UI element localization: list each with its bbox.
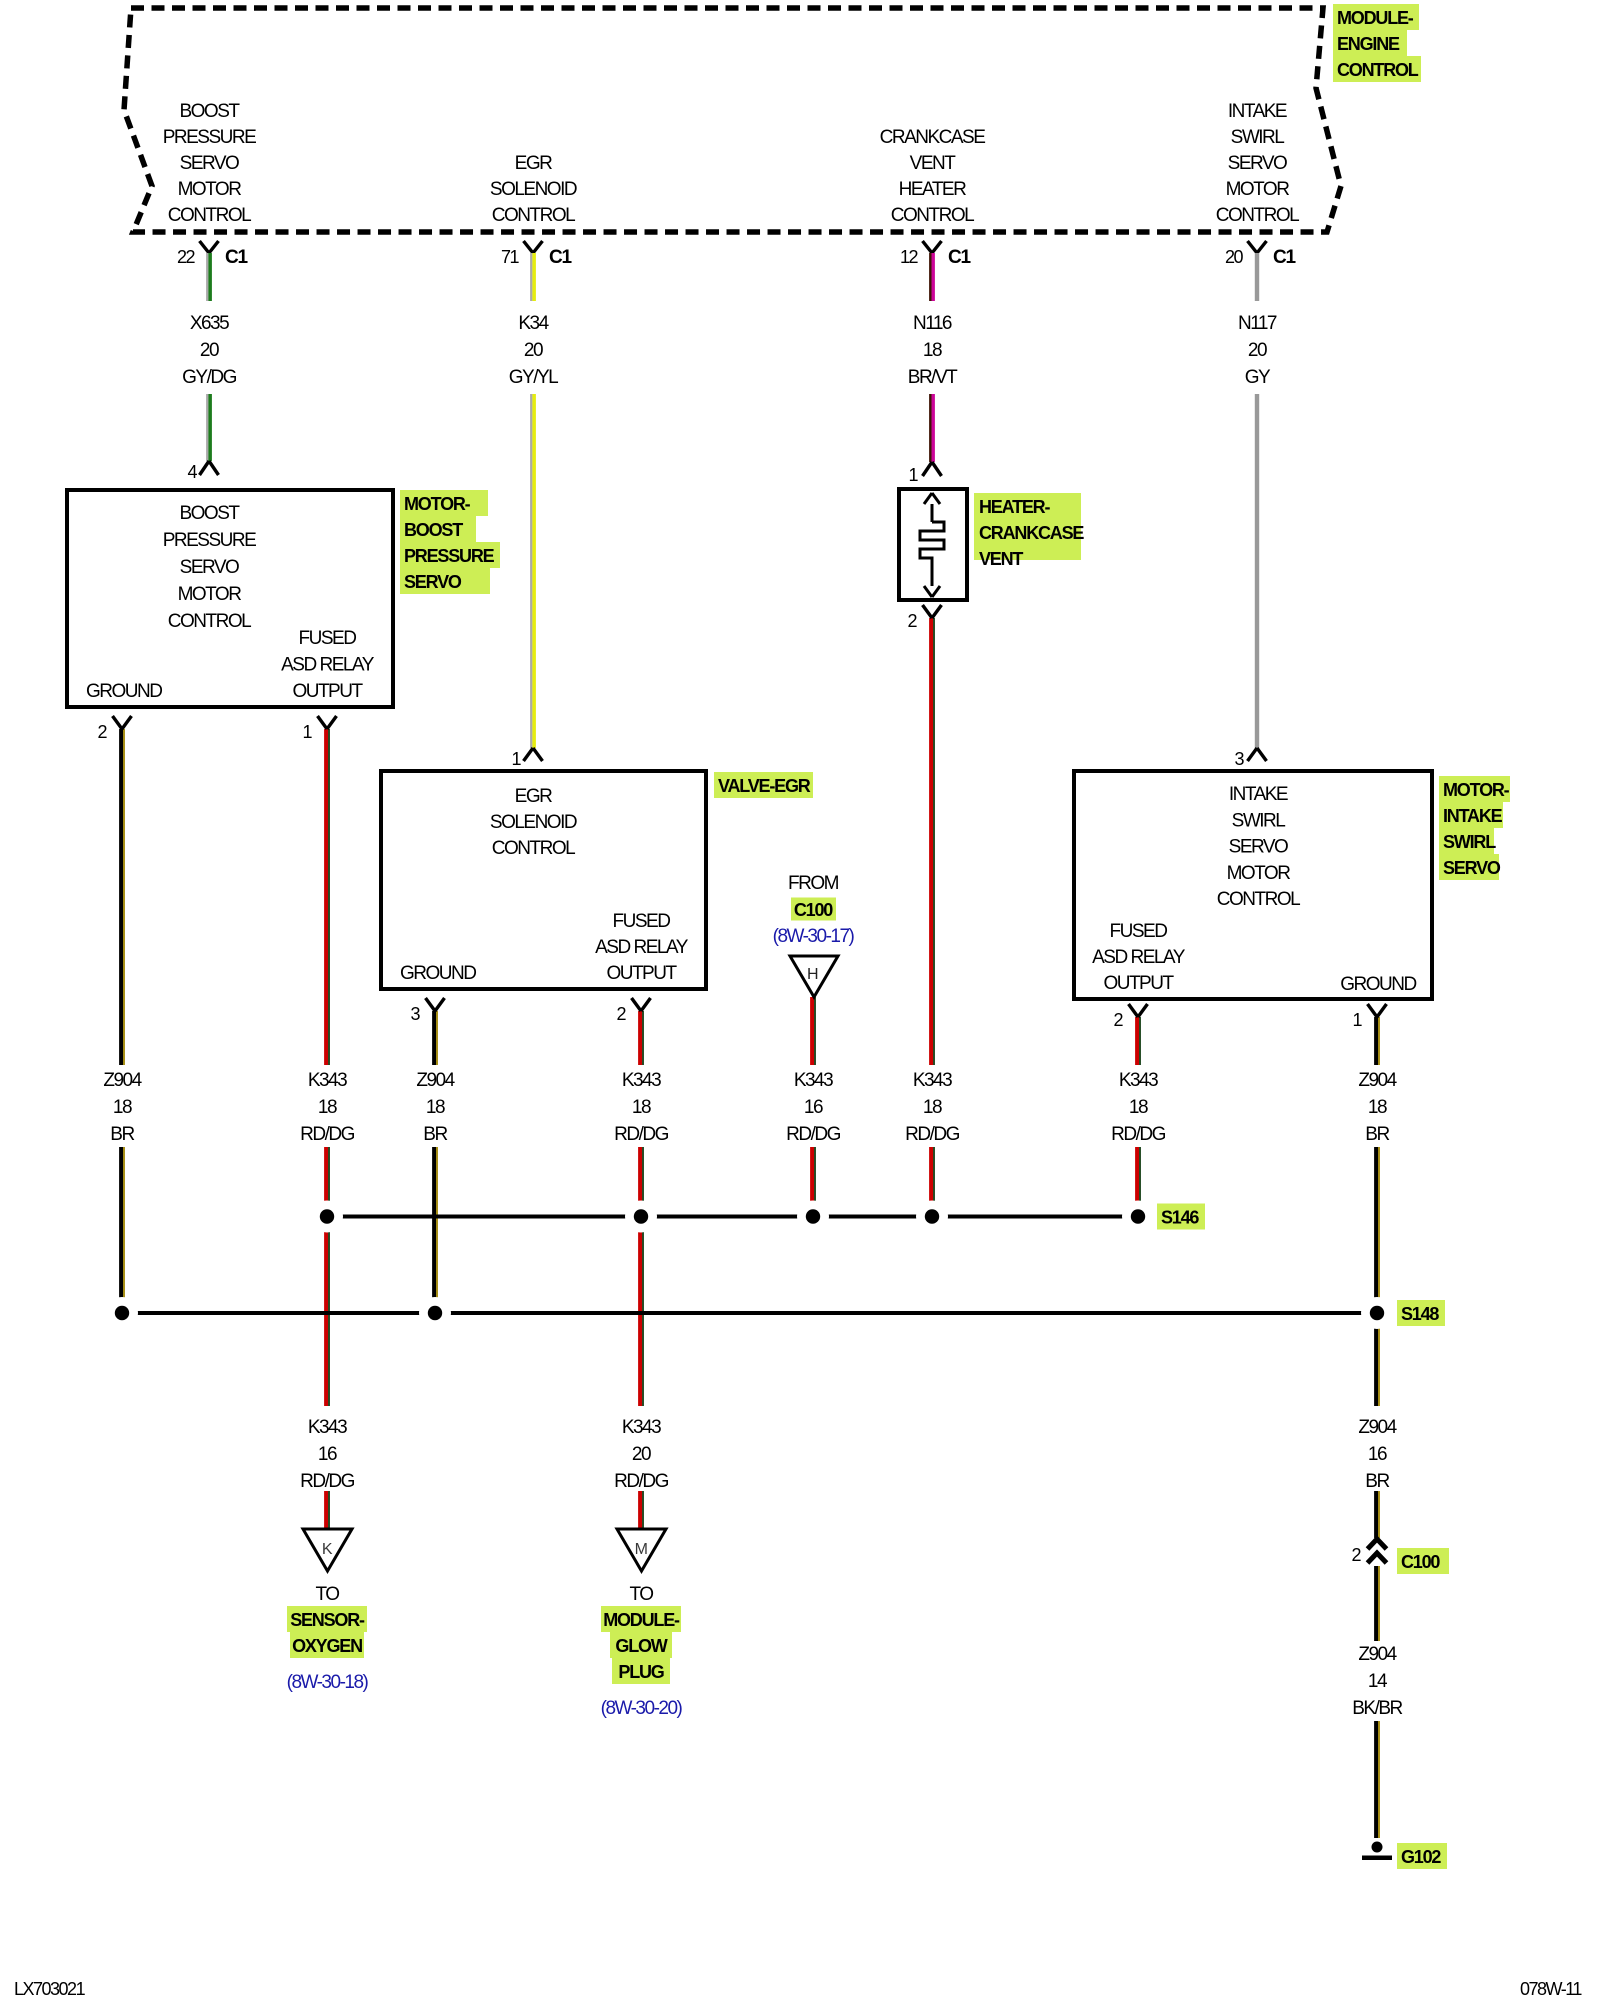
svg-text:OUTPUT: OUTPUT: [292, 681, 363, 702]
svg-text:LX703021: LX703021: [14, 1979, 86, 1999]
svg-text:GROUND: GROUND: [400, 963, 476, 984]
svg-text:N117: N117: [1238, 313, 1277, 334]
svg-text:BR: BR: [1365, 1124, 1389, 1145]
svg-text:K343: K343: [622, 1070, 661, 1091]
svg-text:SERVO: SERVO: [180, 153, 239, 174]
svg-text:Z904: Z904: [1358, 1644, 1397, 1665]
svg-text:20: 20: [1248, 340, 1267, 361]
svg-text:EGR: EGR: [515, 786, 552, 807]
svg-text:18: 18: [318, 1097, 337, 1118]
svg-text:22: 22: [177, 247, 196, 267]
svg-text:3: 3: [1234, 749, 1244, 769]
svg-text:BR: BR: [1365, 1471, 1389, 1492]
svg-text:C100: C100: [1401, 1552, 1440, 1572]
svg-text:CONTROL: CONTROL: [492, 205, 575, 226]
svg-text:078W-11: 078W-11: [1520, 1979, 1582, 1999]
svg-text:Z904: Z904: [1358, 1070, 1397, 1091]
svg-text:CONTROL: CONTROL: [1337, 60, 1419, 80]
svg-text:GY/DG: GY/DG: [182, 367, 236, 388]
svg-text:HEATER: HEATER: [899, 179, 966, 200]
svg-text:BR/VT: BR/VT: [908, 367, 958, 388]
svg-text:PLUG: PLUG: [618, 1662, 663, 1682]
svg-text:MODULE-: MODULE-: [603, 1610, 680, 1630]
svg-text:K343: K343: [622, 1417, 661, 1438]
svg-text:20: 20: [632, 1444, 651, 1465]
svg-text:SERVO: SERVO: [404, 572, 462, 592]
svg-text:MOTOR: MOTOR: [1226, 179, 1290, 200]
svg-text:K343: K343: [1119, 1070, 1158, 1091]
svg-text:INTAKE: INTAKE: [1443, 806, 1503, 826]
svg-text:SERVO: SERVO: [1229, 837, 1288, 858]
svg-text:16: 16: [804, 1097, 823, 1118]
svg-text:RD/DG: RD/DG: [300, 1124, 354, 1145]
svg-text:12: 12: [900, 247, 919, 267]
svg-text:BOOST: BOOST: [179, 503, 240, 524]
svg-text:BOOST: BOOST: [179, 101, 240, 122]
svg-text:18: 18: [632, 1097, 651, 1118]
svg-text:2: 2: [907, 611, 917, 631]
svg-text:16: 16: [318, 1444, 337, 1465]
svg-text:MOTOR: MOTOR: [178, 584, 242, 605]
svg-text:N116: N116: [913, 313, 952, 334]
svg-text:C1: C1: [948, 247, 972, 268]
svg-text:18: 18: [923, 1097, 942, 1118]
svg-text:18: 18: [923, 340, 942, 361]
svg-text:K343: K343: [913, 1070, 952, 1091]
svg-text:HEATER-: HEATER-: [979, 497, 1050, 517]
svg-text:1: 1: [302, 722, 312, 742]
svg-text:MOTOR-: MOTOR-: [1443, 780, 1510, 800]
svg-text:MOTOR: MOTOR: [178, 179, 242, 200]
svg-text:TO: TO: [629, 1584, 653, 1605]
svg-text:SOLENOID: SOLENOID: [490, 812, 577, 833]
svg-text:INTAKE: INTAKE: [1228, 101, 1287, 122]
svg-text:K343: K343: [308, 1417, 347, 1438]
svg-text:18: 18: [1368, 1097, 1387, 1118]
svg-text:3: 3: [410, 1004, 420, 1024]
svg-text:SERVO: SERVO: [1443, 858, 1501, 878]
svg-text:CONTROL: CONTROL: [891, 205, 974, 226]
svg-text:2: 2: [616, 1004, 626, 1024]
svg-text:BR: BR: [110, 1124, 134, 1145]
svg-text:16: 16: [1368, 1444, 1387, 1465]
svg-text:FUSED: FUSED: [1110, 921, 1168, 942]
svg-text:SERVO: SERVO: [1228, 153, 1287, 174]
svg-text:S146: S146: [1161, 1208, 1199, 1228]
svg-text:SERVO: SERVO: [180, 557, 239, 578]
svg-text:ASD RELAY: ASD RELAY: [281, 655, 375, 676]
svg-text:2: 2: [97, 722, 107, 742]
svg-text:CONTROL: CONTROL: [492, 838, 575, 859]
svg-text:2: 2: [1113, 1010, 1123, 1030]
svg-text:FROM: FROM: [788, 873, 839, 894]
svg-text:EGR: EGR: [515, 153, 552, 174]
svg-text:RD/DG: RD/DG: [786, 1124, 840, 1145]
svg-text:BR: BR: [423, 1124, 447, 1145]
svg-text:C1: C1: [1273, 247, 1297, 268]
svg-text:K343: K343: [794, 1070, 833, 1091]
svg-text:K34: K34: [518, 313, 549, 334]
svg-text:MOTOR: MOTOR: [1227, 863, 1291, 884]
svg-text:GROUND: GROUND: [86, 681, 162, 702]
svg-text:ENGINE: ENGINE: [1337, 34, 1400, 54]
svg-text:TO: TO: [315, 1584, 339, 1605]
svg-text:GY: GY: [1245, 367, 1271, 388]
svg-text:C100: C100: [794, 900, 833, 920]
svg-text:18: 18: [426, 1097, 445, 1118]
svg-text:OUTPUT: OUTPUT: [606, 963, 677, 984]
svg-text:RD/DG: RD/DG: [300, 1471, 354, 1492]
svg-text:INTAKE: INTAKE: [1229, 784, 1288, 805]
svg-text:BK/BR: BK/BR: [1352, 1698, 1402, 1719]
svg-text:20: 20: [200, 340, 219, 361]
svg-text:SOLENOID: SOLENOID: [490, 179, 577, 200]
svg-text:FUSED: FUSED: [299, 628, 357, 649]
svg-text:(8W-30-20): (8W-30-20): [601, 1698, 683, 1719]
svg-text:GLOW: GLOW: [615, 1636, 667, 1656]
svg-text:PRESSURE: PRESSURE: [163, 127, 256, 148]
svg-text:RD/DG: RD/DG: [905, 1124, 959, 1145]
svg-text:Z904: Z904: [103, 1070, 142, 1091]
svg-text:VENT: VENT: [910, 153, 957, 174]
svg-text:RD/DG: RD/DG: [614, 1124, 668, 1145]
svg-text:(8W-30-18): (8W-30-18): [287, 1672, 369, 1693]
svg-text:Z904: Z904: [1358, 1417, 1397, 1438]
svg-text:PRESSURE: PRESSURE: [163, 530, 256, 551]
svg-text:CRANKCASE: CRANKCASE: [979, 523, 1084, 543]
svg-text:71: 71: [501, 247, 520, 267]
svg-text:1: 1: [908, 465, 918, 485]
svg-text:CONTROL: CONTROL: [168, 205, 251, 226]
svg-text:K343: K343: [308, 1070, 347, 1091]
svg-text:SENSOR-: SENSOR-: [290, 1610, 365, 1630]
svg-text:20: 20: [1225, 247, 1244, 267]
svg-text:BOOST: BOOST: [404, 520, 463, 540]
svg-text:CONTROL: CONTROL: [1217, 889, 1300, 910]
svg-text:MOTOR-: MOTOR-: [404, 494, 471, 514]
svg-text:M: M: [635, 1541, 648, 1558]
svg-text:CRANKCASE: CRANKCASE: [880, 127, 986, 148]
svg-text:Z904: Z904: [416, 1070, 455, 1091]
svg-text:18: 18: [113, 1097, 132, 1118]
svg-text:GROUND: GROUND: [1340, 974, 1416, 995]
svg-text:CONTROL: CONTROL: [168, 611, 251, 632]
svg-text:G102: G102: [1401, 1847, 1441, 1867]
svg-text:OXYGEN: OXYGEN: [292, 1636, 362, 1656]
svg-text:GY/YL: GY/YL: [509, 367, 558, 388]
svg-text:CONTROL: CONTROL: [1216, 205, 1299, 226]
svg-text:14: 14: [1368, 1671, 1388, 1692]
svg-text:1: 1: [511, 749, 521, 769]
svg-text:SWIRL: SWIRL: [1232, 810, 1286, 831]
svg-text:SWIRL: SWIRL: [1443, 832, 1496, 852]
svg-text:1: 1: [1352, 1010, 1362, 1030]
svg-text:VALVE-EGR: VALVE-EGR: [718, 776, 811, 796]
svg-text:RD/DG: RD/DG: [1111, 1124, 1165, 1145]
svg-text:ASD RELAY: ASD RELAY: [595, 937, 689, 958]
svg-text:PRESSURE: PRESSURE: [404, 546, 495, 566]
svg-text:ASD RELAY: ASD RELAY: [1092, 947, 1186, 968]
svg-text:SWIRL: SWIRL: [1231, 127, 1285, 148]
svg-text:C1: C1: [549, 247, 573, 268]
svg-text:OUTPUT: OUTPUT: [1103, 973, 1174, 994]
svg-text:(8W-30-17): (8W-30-17): [773, 926, 855, 947]
svg-text:RD/DG: RD/DG: [614, 1471, 668, 1492]
svg-text:4: 4: [187, 462, 197, 482]
svg-text:VENT: VENT: [979, 549, 1023, 569]
svg-text:X635: X635: [190, 313, 229, 334]
svg-text:MODULE-: MODULE-: [1337, 8, 1414, 28]
svg-text:18: 18: [1129, 1097, 1148, 1118]
svg-text:20: 20: [524, 340, 543, 361]
svg-text:H: H: [807, 966, 818, 983]
svg-text:FUSED: FUSED: [613, 911, 671, 932]
svg-text:C1: C1: [225, 247, 249, 268]
svg-text:2: 2: [1351, 1545, 1361, 1565]
svg-text:S148: S148: [1401, 1304, 1439, 1324]
